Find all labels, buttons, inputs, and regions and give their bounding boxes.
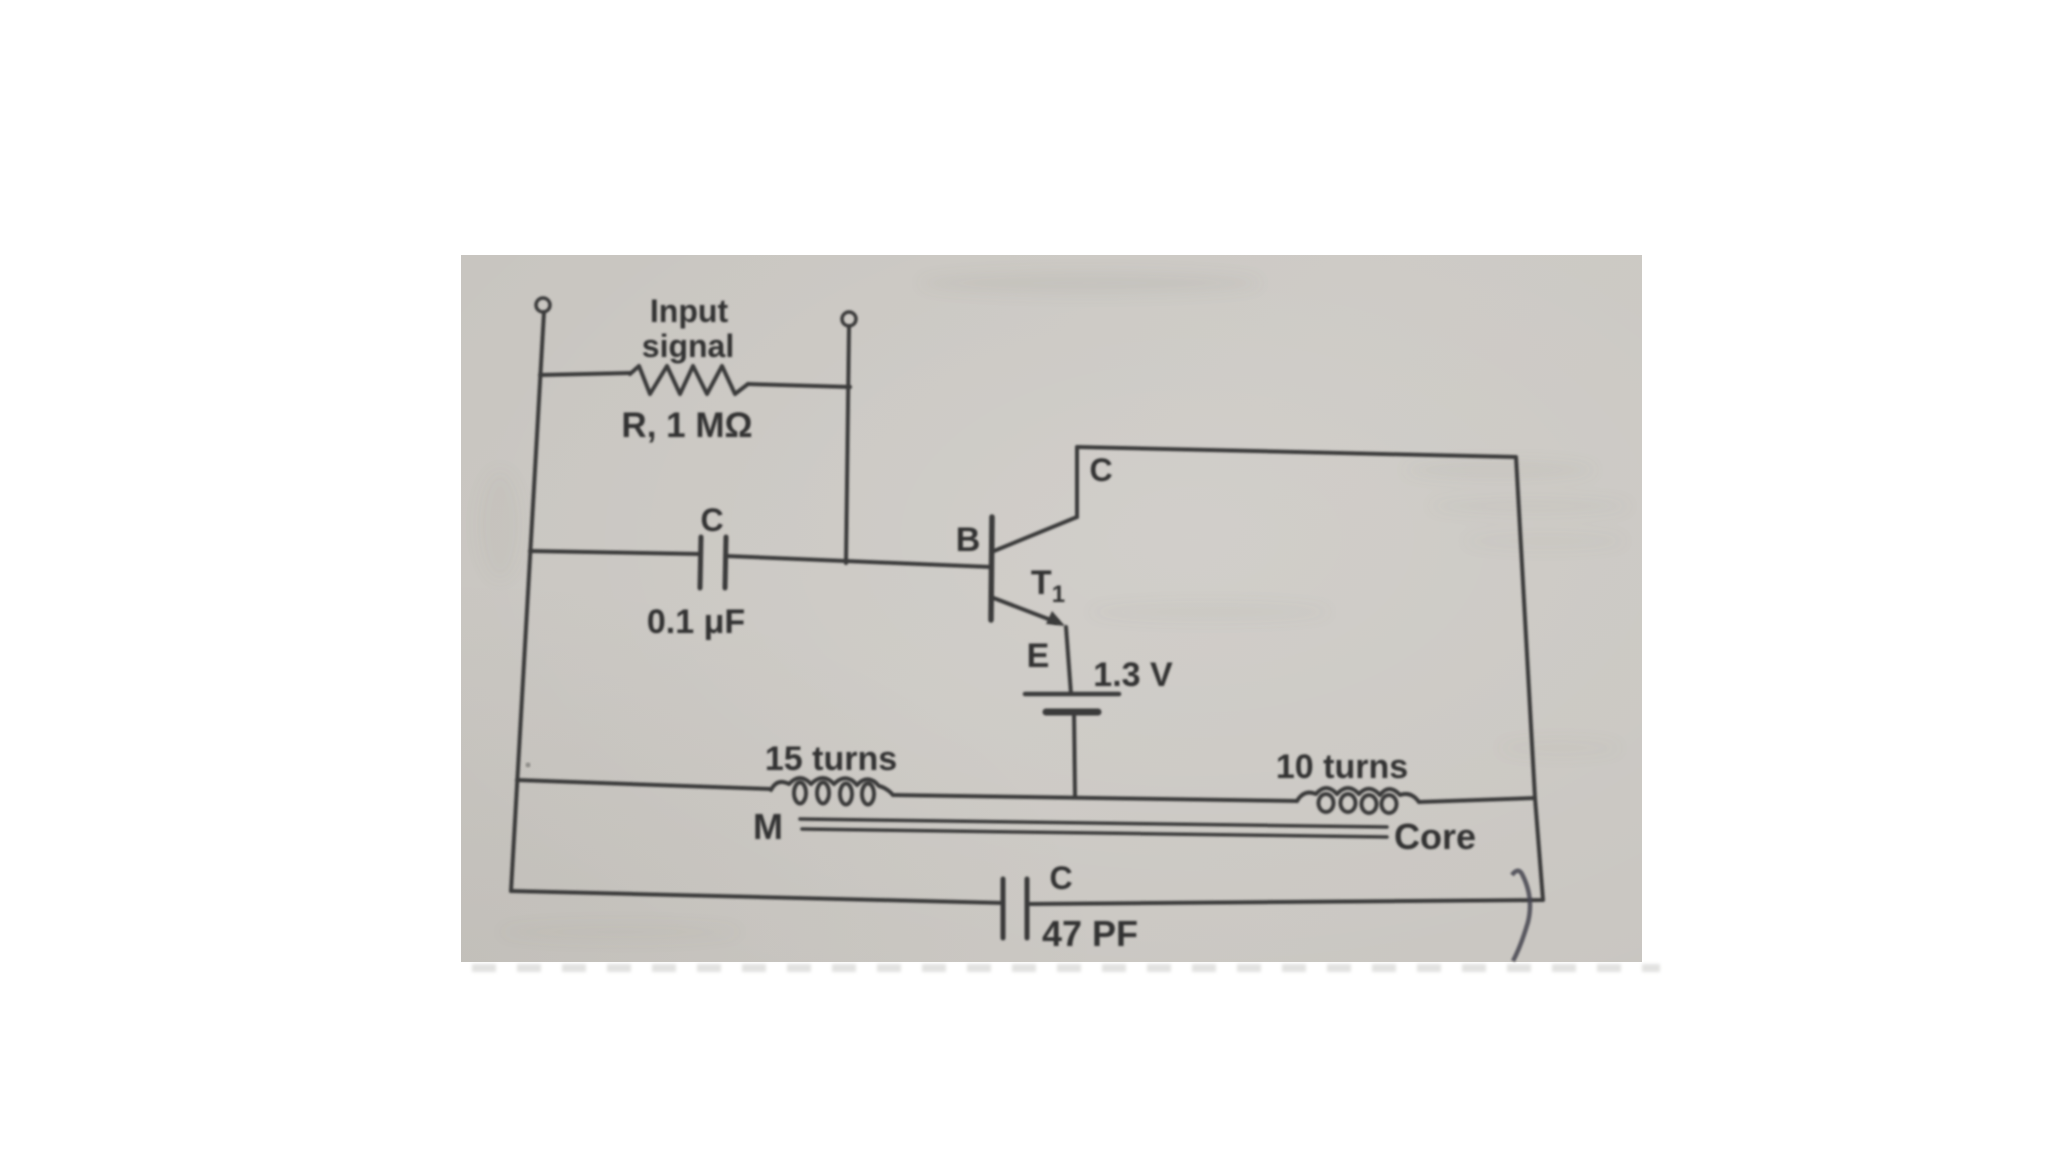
svg-text:Input: Input	[650, 293, 729, 329]
wire: emitter to battery	[1066, 627, 1071, 694]
svg-text:C: C	[1089, 452, 1112, 488]
capacitor C 0.1uF right plate	[725, 537, 726, 588]
svg-text:M: M	[753, 806, 783, 847]
svg-text:C: C	[1049, 860, 1072, 896]
wire: resistor branch from left rail	[540, 373, 630, 375]
svg-text:signal: signal	[642, 328, 734, 364]
svg-text:1.3 V: 1.3 V	[1093, 656, 1173, 694]
svg-text:R, 1 MΩ: R, 1 MΩ	[621, 406, 752, 445]
transformer core bottom line	[802, 829, 1387, 837]
svg-text:E: E	[1027, 637, 1050, 675]
photograph of textbook page	[461, 255, 1642, 962]
wire: left rail to 15-turn winding	[517, 780, 771, 789]
wire: base wire from capacitor to transistor base	[726, 556, 991, 567]
transistor T1 base bar	[991, 517, 992, 620]
battery 1.3V short plate	[1046, 709, 1098, 716]
svg-text:C: C	[700, 502, 723, 538]
capacitor C 47PF right plate	[1025, 879, 1030, 938]
wire: resistor to right terminal rail	[748, 384, 850, 387]
capacitor C 47PF left plate	[1001, 879, 1006, 938]
pen mark bottom right	[1512, 871, 1530, 961]
paper speck	[526, 763, 531, 768]
wire: right terminal rail down to base wire	[846, 326, 849, 563]
transistor T1 collector lead	[994, 517, 1077, 551]
svg-text:Core: Core	[1394, 816, 1476, 857]
faded text strip below photograph	[472, 964, 1660, 972]
terminal (input signal, left)	[536, 298, 550, 312]
capacitor C 0.1uF left plate	[700, 537, 701, 588]
svg-text:B: B	[956, 521, 981, 559]
faint print bleed-through smudges	[478, 272, 1630, 941]
wire: bottom rail left segment to 47pF capacitor	[511, 891, 1003, 903]
inductor L2 10 turns winding	[1297, 788, 1419, 802]
svg-text:0.1 μF: 0.1 μF	[647, 603, 745, 641]
svg-text:15 turns: 15 turns	[765, 740, 897, 778]
transistor T1 emitter arrowhead	[1046, 611, 1065, 626]
transistor T1 emitter lead	[991, 597, 1056, 622]
wire: collector up, top rail, right rail down to bottom-right corner	[1027, 447, 1543, 904]
svg-text:10 turns: 10 turns	[1276, 748, 1408, 786]
inductor L1 15 turns winding	[771, 778, 893, 795]
battery 1.3V long plate	[1025, 692, 1119, 697]
wire: left rail from terminal down to bottom-left corner	[511, 312, 544, 891]
terminal (input signal, right)	[842, 312, 856, 326]
wire: center tap segment between windings	[893, 795, 1297, 801]
wire: battery to transformer tap	[1074, 712, 1075, 796]
wire: base wire left of coupling capacitor	[530, 551, 700, 554]
resistor R, 1 Mohm zigzag	[630, 366, 748, 394]
wire: 10-turn winding to right rail	[1419, 798, 1535, 802]
svg-text:47 PF: 47 PF	[1042, 913, 1138, 954]
transformer core top line	[800, 819, 1387, 827]
